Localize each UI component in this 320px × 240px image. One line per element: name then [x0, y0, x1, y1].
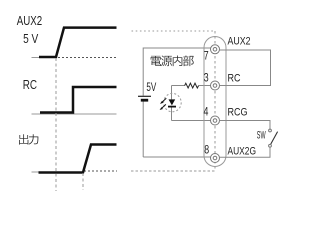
wire AUX2 waveform trace: [39, 28, 117, 57]
svg-text:4: 4: [204, 106, 209, 119]
pin 4 RCG: [211, 116, 220, 125]
wire AUX2 0V baseline dashed: [58, 57, 117, 59]
svg-text:AUX2G: AUX2G: [228, 146, 257, 158]
wire internal bottom rail to pin 8: [143, 156, 210, 158]
wire LED branch vertical lower: [171, 108, 173, 121]
LED D1 cathode bar: [168, 106, 176, 108]
wire RC waveform trace: [40, 87, 117, 113]
battery BT1 5V negative plate: [141, 99, 148, 102]
battery BT1 5V positive plate: [138, 95, 151, 97]
LED D1 photocoupler diode triangle: [169, 99, 176, 105]
wire internal top rail to pin 7: [143, 47, 210, 49]
svg-text:5V: 5V: [146, 80, 156, 94]
photocoupler PC1 dashed envelope: [164, 93, 182, 111]
svg-text:SW: SW: [257, 130, 266, 142]
wire timing cursor dashed vertical 1: [55, 58, 57, 191]
switch SW bottom contact: [269, 144, 272, 147]
wire resistor to pin 3: [199, 85, 211, 87]
wire external RCG to switch: [219, 121, 270, 130]
svg-text:RC: RC: [23, 77, 37, 92]
wire internal left rail upper: [142, 48, 144, 96]
wire output waveform trace: [39, 145, 117, 173]
wire dashed link output baseline to connector bottom: [131, 170, 215, 172]
pin 7 AUX2: [211, 45, 220, 54]
LED D1 light arrow 1: [162, 98, 167, 102]
svg-text:5 V: 5 V: [23, 31, 38, 46]
svg-text:AUX2: AUX2: [228, 36, 251, 48]
wire AUX2 0V baseline solid: [32, 57, 58, 59]
wire timing cursor dashed vertical 2: [82, 173, 84, 190]
connector CN1 body: [204, 37, 226, 167]
svg-text:8: 8: [204, 144, 209, 157]
wire LED branch bottom rail to pin 4: [172, 120, 211, 122]
switch SW blade: [271, 132, 278, 145]
wire external AUX2G to switch: [219, 147, 270, 157]
LED D1 light arrow 2: [161, 104, 166, 108]
wire dotted link AUX2 high to connector pin 7: [132, 30, 216, 32]
svg-text:RC: RC: [228, 72, 241, 84]
wire RC baseline: [32, 113, 117, 115]
wire LED branch vertical upper: [171, 86, 173, 100]
pin 3 RC: [211, 81, 220, 90]
svg-text:AUX2: AUX2: [17, 13, 42, 28]
wire output baseline dashed: [84, 170, 117, 172]
svg-text:7: 7: [204, 50, 209, 63]
wire internal left rail lower: [142, 101, 144, 157]
svg-text:RCG: RCG: [228, 107, 248, 119]
power supply internal label 電源内部: [151, 56, 161, 66]
connector CN1 centerline dashed: [214, 31, 216, 171]
switch SW top contact: [269, 129, 272, 132]
wire external jumper AUX2 to RC: [219, 50, 270, 86]
wire output baseline solid: [32, 171, 84, 173]
node output waveform label 出力: [19, 134, 28, 144]
wire LED branch top lead: [172, 85, 185, 87]
pin 8 AUX2G: [211, 154, 220, 163]
svg-text:3: 3: [204, 71, 209, 84]
resistor R1: [185, 83, 199, 88]
